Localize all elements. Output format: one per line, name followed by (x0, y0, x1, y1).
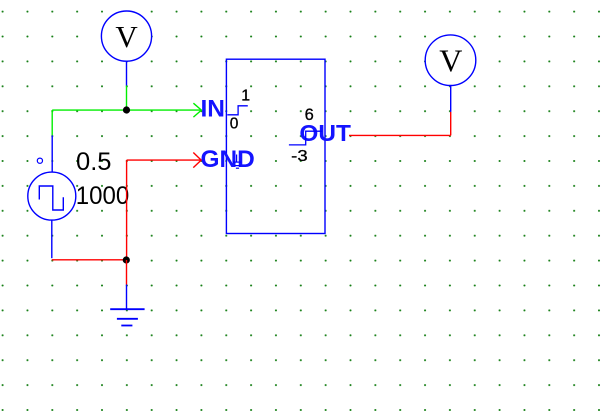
wire green horizontal to IN (52, 109, 201, 111)
wire red from OUT (349, 134, 451, 136)
pin 1 step glyph (227, 106, 248, 115)
wire red bottom horizontal from source (52, 259, 127, 261)
wire red horizontal to GND pin (127, 159, 202, 161)
svg-text:-3: -3 (291, 148, 308, 165)
svg-text:IN: IN (201, 96, 226, 123)
svg-text:6: 6 (305, 106, 314, 124)
svg-text:1: 1 (241, 87, 250, 104)
wire green vertical from M1 to junction (126, 86, 128, 111)
pin 6 step glyph (289, 131, 322, 145)
wire red vertical from GND elbow to junction B (126, 160, 128, 260)
svg-text:V: V (115, 19, 138, 54)
svg-text:V: V (439, 43, 462, 79)
junction dot B (123, 256, 130, 263)
wire red arrowhead at GND (193, 153, 201, 168)
svg-text:0: 0 (230, 116, 239, 133)
svg-text:0.5: 0.5 (76, 148, 112, 176)
pulse source V1 (28, 135, 76, 258)
wire green vertical down to source (51, 110, 53, 135)
wire red stub to ground (126, 260, 128, 285)
wire green arrowhead at IN (193, 103, 201, 117)
svg-text:GND: GND (201, 146, 255, 173)
pin GND tiny ground glyph (233, 155, 241, 169)
voltmeter M2 (425, 35, 476, 112)
wire red vertical to M2 (450, 112, 452, 136)
svg-text:1000: 1000 (76, 182, 130, 210)
voltmeter M1 (101, 11, 151, 86)
subcircuit U1 box (226, 59, 325, 233)
ground (110, 285, 144, 326)
junction dot A (123, 106, 130, 113)
